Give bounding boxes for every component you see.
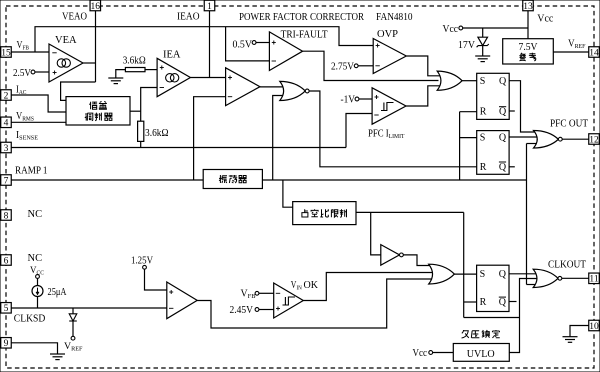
svg-text:7: 7 (4, 176, 9, 186)
svg-text:Q: Q (499, 76, 507, 87)
svg-text:9: 9 (4, 339, 9, 349)
svg-text:17V: 17V (458, 40, 475, 51)
svg-text:NC: NC (28, 253, 43, 264)
svg-text:2.45V: 2.45V (230, 305, 254, 316)
svg-text:3.6kΩ: 3.6kΩ (123, 55, 146, 66)
svg-text:IEA: IEA (163, 50, 181, 61)
svg-text:Q: Q (499, 269, 507, 280)
svg-text:8: 8 (4, 211, 9, 221)
svg-text:S: S (480, 133, 486, 144)
svg-text:VEA: VEA (55, 35, 77, 46)
svg-text:Q: Q (499, 162, 507, 173)
svg-text:TRI-FAULT: TRI-FAULT (281, 30, 329, 41)
svg-text:3.6kΩ: 3.6kΩ (145, 128, 169, 139)
svg-text:1.25V: 1.25V (131, 256, 153, 267)
svg-text:16: 16 (91, 2, 101, 12)
svg-text:6: 6 (4, 256, 9, 266)
svg-text:IEAO: IEAO (177, 12, 200, 23)
svg-text:4: 4 (4, 119, 9, 129)
svg-text:CLKSD: CLKSD (14, 314, 46, 325)
svg-text:FAN4810: FAN4810 (376, 12, 413, 23)
svg-text:14: 14 (589, 48, 599, 58)
svg-text:0.5V: 0.5V (233, 39, 253, 50)
svg-text:Vcc: Vcc (443, 24, 459, 35)
svg-text:Vcc: Vcc (537, 13, 553, 24)
svg-text:NC: NC (28, 209, 43, 220)
svg-text:R: R (480, 107, 487, 118)
svg-text:R: R (480, 162, 487, 173)
svg-text:7.5V: 7.5V (519, 42, 538, 53)
svg-text:UVLO: UVLO (467, 348, 495, 360)
svg-text:12: 12 (589, 135, 599, 145)
svg-text:PFC OUT: PFC OUT (550, 119, 589, 130)
svg-text:2: 2 (4, 91, 9, 101)
svg-text:Q: Q (499, 133, 507, 144)
svg-text:R: R (480, 297, 487, 308)
svg-text:VEAO: VEAO (62, 12, 87, 23)
svg-text:POWER FACTOR CORRECTOR: POWER FACTOR CORRECTOR (239, 12, 364, 23)
svg-text:25μA: 25μA (48, 287, 67, 298)
svg-text:Q: Q (499, 107, 507, 118)
svg-text:13: 13 (523, 2, 533, 12)
svg-text:RAMP 1: RAMP 1 (15, 166, 48, 177)
svg-text:-1V: -1V (341, 95, 356, 106)
svg-text:1: 1 (207, 2, 212, 12)
svg-text:S: S (480, 269, 486, 280)
svg-text:5: 5 (4, 304, 9, 314)
svg-text:Vcc: Vcc (413, 348, 428, 359)
svg-text:15: 15 (1, 48, 11, 58)
svg-text:S: S (480, 76, 486, 87)
svg-text:Q: Q (499, 297, 507, 308)
svg-text:2.75V: 2.75V (331, 61, 354, 72)
svg-text:CLKOUT: CLKOUT (548, 260, 587, 271)
svg-text:OVP: OVP (377, 29, 398, 40)
svg-text:OK: OK (304, 280, 319, 291)
svg-text:10: 10 (589, 322, 599, 332)
svg-text:2.5V: 2.5V (13, 68, 31, 79)
svg-text:3: 3 (4, 144, 9, 154)
svg-text:11: 11 (589, 275, 598, 285)
